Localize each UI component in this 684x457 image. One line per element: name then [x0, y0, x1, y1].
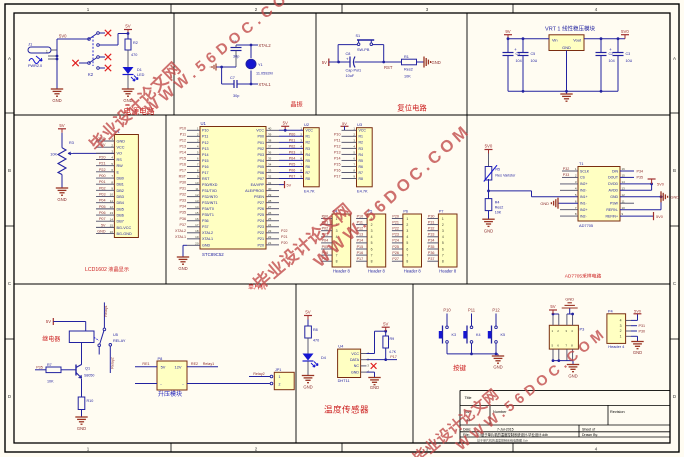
svg-text:P06: P06	[257, 171, 264, 175]
svg-text:6: 6	[406, 247, 408, 251]
svg-text:P16: P16	[357, 251, 364, 255]
svg-text:R5: R5	[495, 168, 500, 172]
switch S1 SW-PB	[338, 34, 384, 62]
serial module P3	[549, 325, 584, 349]
svg-text:P13: P13	[179, 144, 186, 148]
svg-text:P7: P7	[439, 210, 444, 214]
resistor network U3 E4.7K	[341, 121, 373, 194]
svg-text:Res2: Res2	[404, 68, 413, 72]
svg-text:Header 4: Header 4	[608, 344, 625, 349]
svg-text:4: 4	[406, 235, 408, 239]
ground stub left	[210, 64, 221, 71]
svg-text:U5: U5	[113, 332, 118, 337]
svg-text:104: 104	[609, 59, 615, 63]
svg-text:Header 8: Header 8	[404, 269, 422, 274]
svg-text:XTAL1: XTAL1	[175, 235, 186, 239]
key switch K4	[463, 314, 480, 354]
wire GND pin4	[367, 372, 375, 377]
no-connect X at NC	[371, 363, 377, 369]
section label fuwei dianlu	[397, 104, 427, 113]
power 5V LED branch	[304, 310, 312, 326]
svg-text:P21: P21	[99, 162, 106, 166]
svg-text:P17: P17	[390, 355, 397, 359]
svg-text:P12: P12	[202, 141, 209, 145]
svg-text:R3: R3	[359, 147, 364, 151]
svg-text:P30: P30	[179, 181, 186, 185]
svg-text:P13: P13	[334, 150, 341, 154]
svg-text:10U: 10U	[531, 59, 538, 63]
svg-text:10K: 10K	[404, 75, 411, 79]
svg-text:BG-VCC: BG-VCC	[117, 226, 132, 230]
svg-text:P31: P31	[179, 187, 186, 191]
svg-text:P33/INT1: P33/INT1	[202, 201, 218, 205]
svg-text:Y1: Y1	[258, 63, 263, 67]
power 5V left	[322, 59, 340, 67]
svg-text:30p: 30p	[233, 94, 239, 98]
section label jingzhen	[290, 101, 302, 109]
net labels P32 P33	[563, 167, 569, 177]
svg-text:CS: CS	[580, 176, 586, 180]
svg-text:2: 2	[442, 223, 444, 227]
crystal Y1 11.0592M	[246, 59, 273, 75]
connector P1 LCD header	[96, 129, 138, 238]
svg-text:P11: P11	[180, 132, 186, 136]
svg-text:P00: P00	[99, 174, 106, 178]
svg-text:Header 8: Header 8	[333, 269, 351, 274]
wire joining C6 C7	[220, 66, 236, 84]
svg-text:Vout: Vout	[573, 38, 582, 43]
net label XTAL1	[259, 82, 272, 87]
key switch K5	[488, 314, 505, 354]
svg-text:P17: P17	[179, 169, 186, 173]
svg-text:K3: K3	[452, 333, 457, 337]
svg-text:P12: P12	[334, 144, 341, 148]
svg-text:C7: C7	[230, 76, 235, 80]
net labels P00-P07	[289, 132, 296, 178]
svg-text:A: A	[8, 56, 11, 61]
power 5V0 header4	[631, 308, 642, 320]
svg-text:8: 8	[442, 260, 444, 264]
svg-text:XTAL2: XTAL2	[259, 43, 272, 48]
svg-text:P02: P02	[289, 144, 296, 148]
wire DATA P17	[367, 355, 398, 360]
svg-text:GND: GND	[77, 426, 86, 431]
svg-text:P27: P27	[257, 201, 264, 205]
section label AD7705 caiyang	[565, 273, 602, 280]
capacitor C7 30p	[222, 76, 240, 98]
svg-text:R8: R8	[359, 177, 364, 181]
svg-text:VCC: VCC	[117, 146, 125, 150]
svg-text:P22: P22	[392, 227, 399, 231]
svg-text:P33: P33	[563, 173, 569, 177]
wire VCC to 5V node	[367, 330, 388, 354]
svg-text:1: 1	[46, 50, 48, 54]
svg-text:P03: P03	[99, 193, 106, 197]
svg-text:R5: R5	[359, 159, 364, 163]
svg-text:5V0: 5V0	[656, 214, 664, 219]
svg-text:R1: R1	[359, 135, 364, 139]
MCU U1 STC89C52	[187, 121, 279, 257]
svg-text:P22: P22	[99, 168, 106, 172]
svg-text:12V: 12V	[175, 365, 182, 370]
svg-text:XTAL2: XTAL2	[175, 229, 186, 233]
svg-text:P00: P00	[289, 132, 296, 136]
svg-text:GND: GND	[493, 365, 502, 370]
power 5V pullup	[382, 321, 390, 331]
svg-text:P05: P05	[99, 205, 106, 209]
ground right	[424, 57, 441, 68]
svg-text:Revision: Revision	[610, 410, 625, 414]
pin stub PSW	[620, 202, 634, 204]
svg-text:DB6: DB6	[117, 213, 124, 217]
svg-text:R2: R2	[359, 141, 364, 145]
svg-text:P37: P37	[202, 225, 209, 229]
svg-text:E4.7K: E4.7K	[304, 189, 315, 194]
ground at IN1-	[540, 198, 578, 209]
svg-text:5V: 5V	[342, 121, 347, 126]
svg-text:P05: P05	[289, 162, 296, 166]
svg-text:P26: P26	[392, 251, 399, 255]
svg-text:GND: GND	[202, 244, 211, 248]
svg-text:IN1+: IN1+	[580, 195, 588, 199]
svg-text:P6: P6	[403, 210, 408, 214]
regulator module VRT1	[545, 25, 595, 51]
net label P12	[492, 308, 500, 313]
svg-text:U4: U4	[338, 344, 344, 349]
svg-text:R4: R4	[359, 153, 364, 157]
section label danpianji	[248, 283, 266, 291]
svg-text:P15: P15	[357, 245, 364, 249]
svg-text:P23: P23	[257, 225, 264, 229]
net label P31	[631, 324, 645, 328]
net label Relay1 vertical	[104, 305, 108, 316]
svg-text:P15: P15	[334, 162, 341, 166]
svg-text:LCD1602 液晶显示: LCD1602 液晶显示	[85, 265, 129, 273]
svg-text:U2: U2	[304, 122, 310, 127]
svg-text:晶振: 晶振	[290, 101, 302, 109]
svg-text:P01: P01	[257, 141, 264, 145]
svg-text:R8: R8	[313, 328, 318, 332]
svg-text:Relay2: Relay2	[253, 372, 264, 376]
header P4b Header 4	[607, 309, 631, 349]
svg-text:R3: R3	[306, 147, 311, 151]
wire Vout to 5V0	[584, 37, 625, 40]
capacitor C8 Cap Pol1 10uF	[339, 52, 402, 78]
svg-text:PSW: PSW	[610, 201, 619, 205]
svg-text:P00: P00	[257, 135, 264, 139]
svg-text:P32: P32	[179, 193, 186, 197]
svg-text:5V0: 5V0	[657, 181, 665, 186]
svg-text:8: 8	[406, 260, 408, 264]
net label P35	[36, 366, 43, 370]
relay coil U5	[42, 331, 94, 343]
svg-text:5: 5	[371, 241, 373, 245]
svg-text:DIN: DIN	[612, 169, 619, 173]
svg-text:3: 3	[371, 229, 373, 233]
resistor network U2 E4.7K	[300, 122, 319, 193]
svg-text:DOUT: DOUT	[608, 176, 619, 180]
MCU left net labels	[175, 126, 187, 239]
svg-text:P34/T0: P34/T0	[202, 207, 214, 211]
svg-text:R9: R9	[390, 337, 395, 341]
svg-text:5V0: 5V0	[621, 29, 629, 34]
wire Relay2 to JP1	[249, 372, 270, 377]
svg-text:Header 8: Header 8	[439, 269, 457, 274]
svg-text:7-Jul-2015: 7-Jul-2015	[497, 428, 514, 432]
svg-text:GND: GND	[52, 98, 61, 103]
svg-text:GND: GND	[610, 195, 618, 199]
serial top pin stubs	[552, 313, 574, 326]
svg-text:RELAY: RELAY	[113, 338, 126, 343]
svg-text:R8: R8	[306, 177, 311, 181]
svg-text:U3: U3	[357, 122, 363, 127]
wire node to AD7705 IN1+	[489, 191, 579, 197]
wire DIN P34	[620, 169, 643, 173]
section label LCD1602	[85, 265, 129, 273]
svg-text:4.7K: 4.7K	[389, 350, 397, 354]
svg-text:升压模块: 升压模块	[158, 390, 182, 398]
svg-text:P32: P32	[563, 167, 569, 171]
svg-text:VCC: VCC	[351, 352, 359, 356]
wire node to R4	[487, 179, 490, 199]
svg-text:C3: C3	[626, 52, 631, 56]
power 5V at EA pin31	[279, 181, 292, 188]
svg-text:R7: R7	[306, 171, 311, 175]
svg-text:Res Varistor: Res Varistor	[495, 174, 516, 178]
svg-text:5V: 5V	[550, 304, 555, 309]
capacitor C6 30p	[231, 40, 242, 67]
serial bottom pin stubs	[552, 349, 573, 362]
svg-text:P20: P20	[392, 214, 399, 218]
wire R4 to ground	[488, 211, 490, 220]
svg-text:GND: GND	[562, 45, 571, 50]
svg-text:GND: GND	[117, 139, 126, 143]
svg-text:P03: P03	[257, 153, 264, 157]
svg-text:P17: P17	[202, 171, 209, 175]
svg-text:RST: RST	[384, 65, 393, 70]
wire GND pin	[566, 51, 568, 95]
svg-text:1: 1	[620, 335, 622, 339]
svg-text:2: 2	[406, 223, 408, 227]
svg-text:GND: GND	[432, 60, 441, 65]
svg-text:R2: R2	[306, 141, 311, 145]
svg-text:6: 6	[371, 247, 373, 251]
svg-text:P03: P03	[289, 150, 296, 154]
svg-text:D1: D1	[137, 68, 142, 72]
svg-text:P31/TXD: P31/TXD	[202, 189, 217, 193]
svg-text:B: B	[8, 168, 11, 173]
power 9V	[504, 29, 512, 40]
relay contacts	[94, 302, 126, 373]
svg-text:P34: P34	[637, 169, 644, 173]
ground below R10	[75, 417, 87, 431]
svg-text:R1: R1	[404, 55, 409, 59]
svg-text:P35: P35	[428, 245, 435, 249]
svg-text:GND: GND	[351, 370, 359, 374]
capacitor C4 104	[503, 39, 522, 92]
svg-text:1: 1	[442, 217, 444, 221]
svg-text:2: 2	[620, 329, 622, 333]
svg-text:+: +	[514, 47, 517, 52]
svg-text:Q1: Q1	[85, 367, 90, 371]
net label 5V0	[59, 34, 67, 39]
bottom rail	[508, 90, 618, 93]
svg-text:GND: GND	[568, 374, 577, 379]
svg-text:Cap Pol1: Cap Pol1	[346, 69, 362, 73]
switch K2	[79, 32, 128, 77]
svg-text:P12: P12	[179, 138, 186, 142]
svg-text:P05: P05	[257, 165, 264, 169]
AD7705 pin stubs left	[560, 171, 578, 216]
svg-text:10: 10	[622, 206, 626, 210]
wire R3 to ground	[61, 175, 63, 189]
svg-text:P37: P37	[428, 257, 435, 261]
net label RST	[384, 65, 393, 70]
svg-text:RE1: RE1	[142, 362, 149, 366]
ground below R3	[56, 188, 68, 202]
svg-text:P35: P35	[179, 211, 186, 215]
svg-text:A: A	[673, 56, 676, 61]
svg-text:Vin: Vin	[552, 38, 558, 43]
svg-text:RST: RST	[179, 175, 187, 179]
svg-text:11.0592M: 11.0592M	[256, 72, 273, 76]
header P7 Header 8	[427, 210, 457, 274]
svg-text:P27: P27	[392, 257, 399, 261]
resistor R2 470	[125, 34, 138, 68]
svg-text:DB4: DB4	[117, 201, 124, 205]
connector J1	[28, 42, 57, 69]
svg-text:P35: P35	[637, 176, 644, 180]
section label wendu chuanganqi	[324, 404, 369, 415]
wire REFIN+ to 5V0	[620, 212, 664, 220]
wire XTAL1 node	[238, 71, 259, 86]
ground keys	[492, 354, 504, 370]
svg-text:EA/VPP: EA/VPP	[251, 183, 265, 187]
svg-text:2: 2	[279, 382, 281, 386]
ADC U6 AD7705	[575, 162, 625, 228]
svg-text:GND: GND	[671, 195, 680, 199]
wire boost bottom right to JP1	[187, 383, 270, 385]
svg-text:P12: P12	[492, 308, 500, 313]
svg-text:P14: P14	[179, 150, 186, 154]
svg-text:AVDD: AVDD	[609, 189, 619, 193]
svg-text:IN2-: IN2-	[580, 214, 587, 218]
svg-text:Title: Title	[465, 396, 472, 400]
svg-text:P20: P20	[99, 156, 106, 160]
svg-text:3: 3	[406, 229, 408, 233]
svg-text:P31: P31	[639, 324, 646, 328]
svg-text:R4: R4	[495, 201, 500, 205]
svg-text:P36: P36	[428, 251, 435, 255]
svg-text:K4: K4	[476, 333, 481, 337]
svg-text:P21: P21	[281, 235, 288, 239]
key switch K3	[439, 314, 456, 354]
svg-text:P06: P06	[99, 211, 106, 215]
svg-text:10K: 10K	[50, 153, 57, 157]
svg-text:5V: 5V	[46, 319, 51, 324]
net label Relay2 vertical	[110, 357, 114, 368]
svg-text:P15: P15	[179, 156, 186, 160]
svg-text:P32: P32	[428, 227, 435, 231]
svg-text:R6: R6	[306, 165, 311, 169]
ground below serial	[567, 361, 579, 379]
wire RE2 Relay1	[187, 362, 218, 367]
svg-text:5V: 5V	[283, 121, 288, 126]
svg-text:RW: RW	[117, 164, 124, 168]
svg-text:P26: P26	[257, 207, 264, 211]
svg-text:K2: K2	[88, 72, 94, 77]
net label P10	[443, 308, 451, 313]
svg-text:P25: P25	[257, 213, 264, 217]
svg-text:8: 8	[371, 260, 373, 264]
svg-text:STC89C52: STC89C52	[202, 252, 224, 257]
svg-text:R1: R1	[306, 135, 311, 139]
svg-text:温度传感器: 温度传感器	[324, 404, 369, 415]
svg-text:Relay1: Relay1	[203, 362, 214, 366]
svg-text:R6: R6	[359, 165, 364, 169]
svg-text:VCC: VCC	[306, 129, 314, 133]
wire 9V to Vin	[508, 37, 549, 40]
svg-text:P20: P20	[257, 243, 264, 247]
svg-text:7: 7	[442, 253, 444, 257]
svg-text:P13: P13	[202, 147, 209, 151]
svg-text:P21: P21	[257, 237, 264, 241]
ground below D4	[302, 376, 314, 390]
svg-text:P35/T1: P35/T1	[202, 213, 214, 217]
capacitor C3 10U	[609, 39, 632, 92]
wire boost bottom left	[135, 383, 157, 385]
svg-text:IN2+: IN2+	[580, 182, 588, 186]
svg-text:S1: S1	[356, 34, 361, 38]
header P4 Header 8	[321, 210, 351, 274]
svg-text:DB7: DB7	[117, 220, 124, 224]
ground regulator	[560, 94, 572, 101]
net labels P1 pins	[97, 137, 106, 234]
svg-text:P34: P34	[428, 239, 435, 243]
svg-text:P37: P37	[179, 223, 186, 227]
svg-text:ALE/PROG: ALE/PROG	[245, 189, 264, 193]
wire emitter to R10	[81, 379, 83, 398]
wire MCU pin20 to ground	[183, 245, 200, 257]
svg-text:P02: P02	[257, 147, 264, 151]
svg-text:DB2: DB2	[117, 189, 124, 193]
svg-text:5V0: 5V0	[634, 308, 642, 313]
svg-text:P04: P04	[257, 159, 264, 163]
svg-text:9V: 9V	[505, 29, 510, 34]
svg-text:U1: U1	[201, 121, 207, 126]
svg-text:GND: GND	[370, 385, 379, 390]
svg-text:D4: D4	[321, 356, 326, 360]
ground below LED	[122, 89, 134, 103]
svg-text:P16: P16	[179, 162, 186, 166]
svg-text:AD7705采样电路: AD7705采样电路	[565, 273, 602, 280]
svg-text:30p: 30p	[233, 55, 239, 59]
svg-text:10K: 10K	[495, 211, 502, 215]
svg-text:104: 104	[516, 59, 522, 63]
svg-text:AD7705: AD7705	[579, 223, 593, 228]
svg-text:R3: R3	[69, 141, 74, 145]
LED D1	[123, 67, 145, 89]
wire RE1	[135, 362, 157, 367]
svg-text:P24: P24	[257, 219, 264, 223]
power 5V serial	[549, 304, 557, 314]
svg-text:P8: P8	[158, 356, 163, 361]
svg-text:BG-GND: BG-GND	[117, 232, 132, 236]
svg-text:P25: P25	[392, 245, 399, 249]
svg-text:P10: P10	[443, 308, 451, 313]
svg-text:7: 7	[406, 253, 408, 257]
svg-text:K5: K5	[501, 333, 506, 337]
